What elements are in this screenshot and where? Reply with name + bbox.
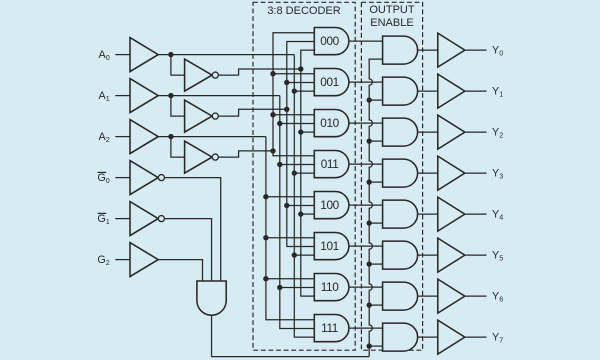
wire: A1 stub to gate 6 xyxy=(280,287,315,289)
node: enable tap row 4 xyxy=(367,220,372,225)
AND gate 100 (minterm 4) xyxy=(314,192,349,219)
output buffer Y2 xyxy=(438,115,465,149)
node: A1 inverted joins bus xyxy=(284,107,289,112)
node: enable tap row 1 xyxy=(367,97,372,102)
inverter U2 (A1 complement) xyxy=(185,100,213,132)
wire: minterm 3 to OE gate xyxy=(349,163,383,165)
node: A1 tap gate 3 xyxy=(277,162,282,167)
wire: OE gate 5 to buffer xyxy=(418,254,438,256)
node: A2 tap gate 4 xyxy=(263,194,268,199)
inverter U3 (A2 complement) xyxy=(185,141,213,173)
svg-text:011: 011 xyxy=(321,157,339,171)
output buffer Y4 xyxy=(438,197,465,231)
node: A1-inv tap gate 4 xyxy=(284,203,289,208)
wire: A1 inverted feed with jog xyxy=(218,109,287,116)
wire: A1 bus vertical xyxy=(280,96,315,329)
AND gate 001 (minterm 1) xyxy=(314,69,349,96)
wire: A0-inv stub to gate 4 xyxy=(301,213,315,215)
node: A2 tap gate 5 xyxy=(263,235,268,240)
node: A2 branch junction xyxy=(168,134,173,139)
node: A1 branch junction xyxy=(168,93,173,98)
wire: A1-inv stub to gate 1 xyxy=(287,82,315,84)
wire: A0 bus vertical xyxy=(294,55,314,338)
wire: branch down to inverter A0 xyxy=(171,55,185,76)
wire: input stub G1 xyxy=(115,218,130,220)
wire: enable AND output to OE column xyxy=(212,315,370,356)
wire: minterm 4 to OE gate xyxy=(349,204,383,206)
wire: OE gate 2 to buffer xyxy=(418,131,438,133)
wire: Y2 output xyxy=(465,131,487,133)
output buffer Y1 xyxy=(438,74,465,108)
wire: minterm 5 to OE gate xyxy=(349,245,383,247)
wire: A0 stub to gate 5 xyxy=(294,254,314,256)
svg-text:3:8 DECODER: 3:8 DECODER xyxy=(267,5,340,17)
wire: enable vertical with crossovers xyxy=(369,59,382,357)
AND gate 101 (minterm 5) xyxy=(314,233,349,260)
wire: A0 buffered output xyxy=(158,54,294,56)
wire: OE gate 7 to buffer xyxy=(418,336,438,338)
OE AND gate row 7 xyxy=(383,323,418,351)
inverter G1 (enable, active low) xyxy=(130,202,158,236)
output buffer Y7 xyxy=(438,320,465,354)
node: enable tap row 5 xyxy=(367,261,372,266)
svg-text:110: 110 xyxy=(321,280,340,294)
wire: enable stub to OE gate 4 xyxy=(369,222,382,224)
wire: Y3 output xyxy=(465,172,487,174)
svg-text:010: 010 xyxy=(320,116,339,130)
wire: A2 bus vertical xyxy=(266,137,314,320)
wire: minterm 7 to OE gate xyxy=(349,327,383,329)
wire: A0-inv bus vertical xyxy=(301,50,315,296)
wire: enable stub to OE gate 3 xyxy=(369,181,382,183)
buffer A2 xyxy=(130,120,158,154)
svg-text:001: 001 xyxy=(320,75,339,89)
node: A0 tap gate 3 xyxy=(292,170,297,175)
node: A1-inv tap gate 1 xyxy=(284,80,289,85)
node: A2 inverted joins bus xyxy=(270,148,275,153)
node: A0 tap gate 5 xyxy=(292,252,297,257)
wire: A2 stub to gate 5 xyxy=(266,237,314,239)
wire: OE gate 1 to buffer xyxy=(418,90,438,92)
AND gate 011 (minterm 3) xyxy=(314,151,349,178)
wire: A2 inverted feed with jog xyxy=(218,151,273,157)
node: A2-inv tap gate 1 xyxy=(270,71,275,76)
node: enable tap row 2 xyxy=(367,138,372,143)
wire: Y7 output xyxy=(465,336,487,338)
wire: enable stub to OE gate 1 xyxy=(369,99,382,101)
node: A0 inverted joins bus xyxy=(298,66,303,71)
wire: A0 stub to gate 3 xyxy=(294,172,314,174)
wire: A2 stub to gate 6 xyxy=(266,278,314,280)
OE AND gate row 0 xyxy=(383,36,418,64)
svg-text:000: 000 xyxy=(320,34,339,48)
output buffer Y5 xyxy=(438,238,465,272)
wire: input stub A1 xyxy=(115,95,130,97)
wire: input stub G2 xyxy=(115,259,130,261)
node: A0 branch junction xyxy=(168,52,173,57)
wire: A1 buffered output xyxy=(158,95,280,97)
dashed box: OUTPUT ENABLE section xyxy=(361,2,422,350)
wire: A0 stub to gate 1 xyxy=(294,90,314,92)
wire: G0 to enable AND xyxy=(164,178,220,281)
node: A2-inv tap gate 2 xyxy=(270,112,275,117)
OE AND gate row 1 xyxy=(383,77,418,105)
wire: input stub A0 xyxy=(115,54,130,56)
buffer G2 (enable, active high) xyxy=(130,243,158,277)
wire: Y1 output xyxy=(465,90,487,92)
wire: minterm 1 to OE gate xyxy=(349,81,383,83)
enable AND gate (3-input) xyxy=(197,281,226,315)
wire: A2 stub to gate 4 xyxy=(266,196,314,198)
wire: A2-inv stub to gate 1 xyxy=(273,73,314,75)
node: enable tap row 7 xyxy=(367,343,372,348)
svg-text:ENABLE: ENABLE xyxy=(370,17,413,29)
OE AND gate row 2 xyxy=(383,118,418,146)
buffer A0 xyxy=(130,38,158,72)
wire: A0-inv stub to gate 2 xyxy=(301,131,315,133)
wire: OE gate 3 to buffer xyxy=(418,172,438,174)
svg-text:101: 101 xyxy=(320,239,339,253)
OE AND gate row 4 xyxy=(383,200,418,228)
output buffer Y0 xyxy=(438,33,465,67)
wire: Y0 output xyxy=(465,49,487,51)
wire: Y5 output xyxy=(465,254,487,256)
wire: minterm 0 to OE gate xyxy=(349,40,383,42)
OE AND gate row 3 xyxy=(383,159,418,187)
AND gate 010 (minterm 2) xyxy=(314,110,349,137)
wire: A2-inv bus vertical xyxy=(273,33,314,156)
wire: G1 to enable AND xyxy=(164,219,211,281)
wire: input stub A2 xyxy=(115,136,130,138)
node: A1 tap gate 6 xyxy=(277,285,282,290)
wire: A1-inv stub to gate 4 xyxy=(287,205,315,207)
dashed box: 3:8 DECODER section xyxy=(253,2,355,350)
wire: OE gate 6 to buffer xyxy=(418,295,438,297)
output buffer Y3 xyxy=(438,156,465,190)
wire: enable stub to OE gate 7 xyxy=(369,345,382,347)
wire: G2 to enable AND xyxy=(158,260,202,281)
svg-text:OUTPUT: OUTPUT xyxy=(369,4,415,16)
node: A0-inv tap gate 4 xyxy=(298,211,303,216)
wire: branch down to inverter A1 xyxy=(171,96,185,117)
wire: enable stub to OE gate 6 xyxy=(369,304,382,306)
wire: input stub G0 xyxy=(115,177,130,179)
wire: OE gate 4 to buffer xyxy=(418,213,438,215)
node: enable tap row 6 xyxy=(367,302,372,307)
wire: branch down to inverter A2 xyxy=(171,137,185,158)
wire: A1 stub to gate 3 xyxy=(280,164,315,166)
wire: A2 buffered output xyxy=(158,136,266,138)
wire: Y4 output xyxy=(465,213,487,215)
inverter U1 (A0 complement) xyxy=(185,59,213,91)
wire: minterm 2 to OE gate xyxy=(349,122,383,124)
wire: Y6 output xyxy=(465,295,487,297)
AND gate 110 (minterm 6) xyxy=(314,274,349,301)
node: A0-inv tap gate 2 xyxy=(298,129,303,134)
wire: minterm 6 to OE gate xyxy=(349,286,383,288)
wire: A1-inv bus vertical xyxy=(287,42,315,247)
AND gate 000 (minterm 0) xyxy=(314,28,349,55)
buffer A1 xyxy=(130,79,158,113)
svg-text:111: 111 xyxy=(321,321,338,335)
wire: A0 inverted feed with jog xyxy=(218,69,301,75)
output buffer Y6 xyxy=(438,279,465,313)
svg-text:100: 100 xyxy=(320,198,339,212)
node: A0 tap gate 1 xyxy=(292,88,297,93)
OE AND gate row 6 xyxy=(383,282,418,310)
wire: enable stub to OE gate 2 xyxy=(369,140,382,142)
wire: enable stub to OE gate 5 xyxy=(369,263,382,265)
node: enable tap row 3 xyxy=(367,179,372,184)
wire: OE gate 0 to buffer xyxy=(418,49,438,51)
node: A1 tap gate 2 xyxy=(277,121,282,126)
wire: A2-inv stub to gate 2 xyxy=(273,114,314,116)
node: A2 tap gate 6 xyxy=(263,276,268,281)
wire: A1 stub to gate 2 xyxy=(280,123,315,125)
AND gate 111 (minterm 7) xyxy=(314,315,349,342)
OE AND gate row 5 xyxy=(383,241,418,269)
inverter G0 (enable, active low) xyxy=(130,161,158,195)
